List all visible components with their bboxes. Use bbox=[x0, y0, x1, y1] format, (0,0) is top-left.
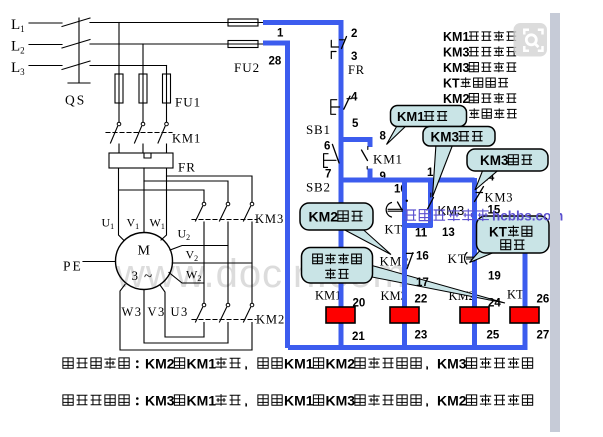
wire U1 bbox=[119, 168, 125, 241]
contactor KM3 main contacts bbox=[202, 202, 206, 206]
fuse FU1 pole1 bbox=[115, 74, 123, 103]
svg-text:8: 8 bbox=[380, 131, 387, 143]
wire branch2 bbox=[402, 180, 407, 307]
svg-text:22: 22 bbox=[415, 294, 428, 306]
contact KM1 aux NO bbox=[362, 150, 368, 161]
wire branch to KM3 pole2 bbox=[144, 181, 228, 202]
wire U3 bbox=[160, 285, 204, 337]
svg-text:KM2: KM2 bbox=[443, 92, 469, 106]
scrollbar bbox=[550, 13, 560, 432]
svg-text:KM3: KM3 bbox=[437, 356, 467, 372]
wire KM3 pole2 down bbox=[227, 222, 229, 303]
svg-text:26: 26 bbox=[537, 294, 550, 306]
wire node5 branch to KM1 aux bbox=[341, 137, 370, 142]
svg-text:KT: KT bbox=[507, 288, 524, 302]
switch QS blade L3 bbox=[62, 61, 90, 70]
switch QS blade L1 bbox=[62, 18, 90, 27]
wire branch to KM3 pole1 bbox=[119, 190, 205, 202]
svg-text:17: 17 bbox=[416, 277, 429, 289]
wire coil KT to bottom bus bbox=[523, 323, 528, 348]
contactor KM2 linkage bbox=[192, 319, 256, 321]
wire branch to KM3 pole3 bbox=[167, 176, 253, 202]
svg-text:KM3: KM3 bbox=[431, 130, 460, 145]
wire L2 drop bbox=[142, 44, 144, 74]
svg-text:SB2: SB2 bbox=[306, 180, 331, 195]
wire coil KM1 to bottom bus bbox=[339, 323, 344, 348]
svg-text:KM2: KM2 bbox=[309, 209, 339, 225]
wire KM2 pole stubs bbox=[204, 323, 252, 351]
magnifier button bbox=[514, 23, 548, 57]
svg-text:W3: W3 bbox=[122, 305, 143, 319]
svg-text:KM1: KM1 bbox=[397, 109, 424, 124]
button SB1 bbox=[331, 100, 340, 115]
wire L2 feeder bbox=[29, 44, 62, 46]
svg-text:3: 3 bbox=[132, 268, 139, 283]
wire node28 return bbox=[263, 43, 288, 348]
wire L3 bus bbox=[90, 65, 167, 67]
callout KM3 selflock bbox=[433, 144, 454, 197]
contact KM3 interlock NC bbox=[475, 187, 484, 202]
wire W3 bbox=[120, 285, 252, 351]
coil KM1 bbox=[326, 307, 355, 323]
svg-text:KM3: KM3 bbox=[255, 212, 284, 226]
svg-text:4: 4 bbox=[351, 92, 358, 104]
fuse FU2 lower bbox=[228, 41, 258, 48]
contact KT delayed NO bbox=[386, 203, 391, 218]
callout KM2 interlock bbox=[342, 229, 391, 255]
svg-text:~: ~ bbox=[144, 269, 152, 285]
svg-text:25: 25 bbox=[487, 330, 500, 342]
svg-text:28: 28 bbox=[269, 56, 282, 68]
svg-text:FU2: FU2 bbox=[234, 60, 260, 75]
contact KT delayed NC bbox=[464, 253, 467, 265]
svg-text:2: 2 bbox=[351, 28, 357, 40]
wire bus 9-14 bbox=[341, 178, 475, 183]
svg-text:FR: FR bbox=[178, 160, 196, 175]
wire coil KM2 to bottom bus bbox=[472, 323, 477, 348]
svg-text:KM2: KM2 bbox=[326, 356, 356, 372]
svg-text:11: 11 bbox=[415, 228, 428, 240]
svg-text:FU1: FU1 bbox=[175, 95, 201, 110]
svg-text:KM1: KM1 bbox=[373, 152, 403, 167]
svg-text:KT: KT bbox=[489, 225, 508, 240]
callout KM1 selflock bbox=[387, 124, 409, 145]
coil KM2 bbox=[460, 307, 489, 323]
relay FR contact bbox=[331, 40, 338, 47]
svg-text:6: 6 bbox=[324, 141, 330, 153]
wire L1 drop bbox=[118, 23, 120, 75]
wire W1 bbox=[161, 168, 167, 240]
contactor KM2 main contacts bbox=[202, 303, 206, 307]
svg-text:QS: QS bbox=[65, 93, 86, 108]
svg-text:1: 1 bbox=[277, 28, 284, 40]
wire branch1 main bbox=[339, 20, 344, 307]
wire node1 top bus bbox=[263, 20, 341, 25]
svg-text:KM3: KM3 bbox=[326, 393, 356, 409]
svg-text:KT: KT bbox=[443, 77, 460, 91]
wire KM1 aux lower stub bbox=[368, 169, 373, 181]
svg-text:16: 16 bbox=[416, 251, 429, 263]
caption line 1 bbox=[63, 358, 73, 368]
svg-text:M: M bbox=[138, 244, 151, 259]
contactor KM1 main contacts bbox=[117, 122, 121, 126]
svg-text:KM1: KM1 bbox=[187, 393, 217, 409]
wire bottom bus bbox=[288, 345, 528, 350]
svg-text:KM1: KM1 bbox=[187, 356, 217, 372]
svg-text:KM1: KM1 bbox=[172, 132, 201, 146]
callout tail start-delay bbox=[372, 266, 505, 304]
svg-text:PE: PE bbox=[63, 259, 83, 274]
svg-text:KM3: KM3 bbox=[443, 46, 469, 60]
wire V2 bbox=[172, 262, 252, 264]
fuse FU1 pole3 bbox=[163, 74, 171, 103]
contact KM3 selflock NO bbox=[427, 198, 434, 211]
coil KT bbox=[510, 307, 539, 323]
motor M bbox=[116, 233, 173, 290]
wire coil KM3 to bottom bus bbox=[402, 323, 407, 348]
svg-text:KM1: KM1 bbox=[315, 289, 341, 303]
svg-text:KM3: KM3 bbox=[485, 191, 514, 205]
relay FR heater box bbox=[109, 153, 173, 168]
wire L1 feeder bbox=[29, 22, 62, 24]
wire branch2b KM3 selflock bbox=[428, 180, 433, 227]
svg-text:KT: KT bbox=[385, 223, 403, 237]
svg-text:19: 19 bbox=[488, 271, 501, 283]
svg-text:23: 23 bbox=[415, 330, 428, 342]
wire PE bbox=[83, 261, 116, 263]
svg-text:27: 27 bbox=[537, 330, 550, 342]
switch QS blade L2 bbox=[62, 40, 90, 49]
svg-text:13: 13 bbox=[442, 227, 455, 239]
svg-text:KM1: KM1 bbox=[284, 356, 314, 372]
watermark hcbbs bbox=[405, 210, 417, 220]
callout KM3 interlock bbox=[475, 170, 499, 191]
wire L3 drop bbox=[166, 66, 168, 75]
wire U2 bbox=[170, 246, 228, 251]
button SB2 bbox=[324, 154, 336, 168]
svg-text:KM2: KM2 bbox=[256, 313, 285, 327]
svg-text:KM3: KM3 bbox=[480, 153, 509, 168]
wire branch3 bbox=[472, 178, 477, 307]
svg-text:SB1: SB1 bbox=[306, 122, 331, 137]
wire L1 bus bbox=[90, 22, 264, 24]
svg-text:21: 21 bbox=[352, 331, 365, 343]
wire branch4 tap bbox=[475, 223, 526, 228]
wire KM3 pole3 down bbox=[251, 222, 253, 303]
svg-text:5: 5 bbox=[352, 118, 359, 130]
callout start delay bbox=[302, 248, 373, 284]
svg-text:KM2: KM2 bbox=[145, 356, 175, 372]
contactor KM3 linkage bbox=[192, 219, 256, 221]
svg-text:V3: V3 bbox=[148, 305, 166, 319]
coil KM3 bbox=[390, 307, 419, 323]
wire KM1 aux upper stub bbox=[368, 137, 373, 147]
wire W2 bbox=[169, 273, 204, 284]
wire L3 feeder bbox=[29, 65, 62, 67]
svg-text:KM2: KM2 bbox=[437, 393, 467, 409]
svg-text:U3: U3 bbox=[171, 305, 189, 319]
fuse FU1 pole2 bbox=[139, 74, 147, 103]
svg-text:KM1: KM1 bbox=[443, 30, 469, 44]
svg-text:KM3: KM3 bbox=[145, 393, 175, 409]
caption line 2 bbox=[63, 395, 73, 405]
wire L2 bus bbox=[90, 43, 264, 45]
svg-text:3: 3 bbox=[351, 51, 357, 63]
wire node11-13 link bbox=[403, 223, 433, 228]
svg-text:FR: FR bbox=[348, 63, 365, 77]
svg-text:KM3: KM3 bbox=[443, 61, 469, 75]
wire branch4 down to coil KT bbox=[523, 224, 528, 307]
contact KM2 interlock NC bbox=[407, 253, 413, 269]
svg-text:KM1: KM1 bbox=[284, 393, 314, 409]
contactor KM1 linkage bbox=[106, 132, 172, 134]
svg-text:KT: KT bbox=[448, 251, 467, 266]
wire V1 bbox=[143, 168, 145, 233]
fuse FU2 upper bbox=[228, 19, 258, 26]
wire V3 bbox=[144, 290, 228, 344]
callout KT delay interlock bbox=[470, 252, 497, 263]
wire KM3 pole1 down bbox=[203, 222, 205, 303]
switch QS linkage bbox=[68, 18, 90, 83]
